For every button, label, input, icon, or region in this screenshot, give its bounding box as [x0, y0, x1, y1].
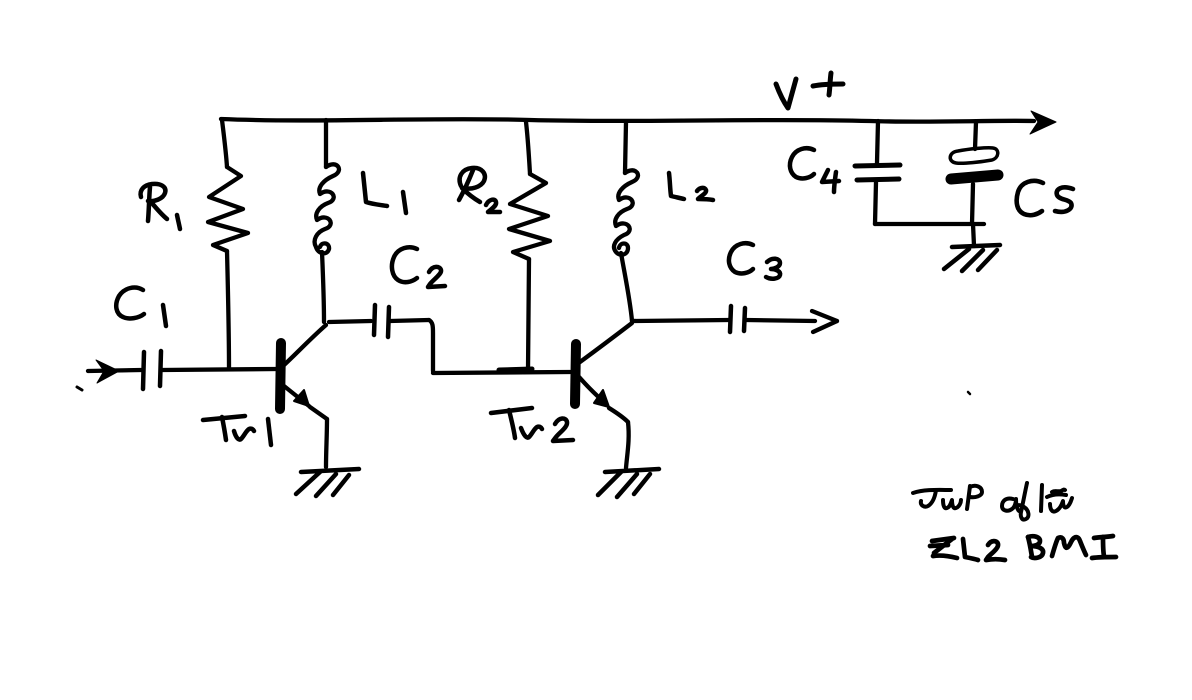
- transistor Tr1 emitter: [284, 386, 327, 419]
- capacitor C5 bottom plate: [951, 175, 998, 179]
- capacitor C3: [730, 306, 745, 332]
- label C4: [790, 148, 839, 192]
- label L2: [669, 173, 713, 200]
- wire Tr1 emitter to ground: [326, 419, 327, 467]
- ground under Tr2: [598, 469, 659, 497]
- label Tr1: [203, 416, 271, 445]
- wire C4 drop: [877, 121, 878, 163]
- wire C2 right: [390, 320, 429, 321]
- transistor Tr1 bar: [280, 343, 281, 409]
- node input arrowhead: [96, 360, 119, 383]
- resistor R2: [509, 174, 550, 259]
- wire L2 bottom: [621, 253, 632, 321]
- label L1: [363, 173, 406, 213]
- wire R1 bottom: [227, 251, 229, 369]
- inductor L2: [614, 170, 638, 254]
- label C3: [729, 243, 780, 279]
- wire C4 to ground junction: [875, 222, 984, 226]
- transistor Tr2 emitter: [579, 377, 628, 422]
- node stray speck: [968, 392, 970, 394]
- node output arrowhead: [812, 311, 837, 332]
- wire overlap mark: [499, 369, 532, 370]
- wire C4 bottom: [875, 182, 876, 224]
- wire R1 top: [222, 120, 227, 167]
- wire to Tr2 base: [433, 372, 570, 373]
- wire V+ rail: [221, 119, 1034, 122]
- wire C3 out: [746, 320, 815, 321]
- wire Tr1 collector to C2: [329, 321, 371, 322]
- ground under Tr1: [296, 469, 359, 496]
- label R1: [141, 184, 180, 229]
- label C2: [392, 247, 445, 287]
- label R2: [459, 168, 500, 212]
- wire C5 drop: [975, 122, 976, 149]
- wire C1 to Tr1 base: [162, 369, 277, 370]
- wire Tr2 emitter to ground: [626, 422, 629, 468]
- label Tr2: [491, 408, 573, 441]
- capacitor C5 top plate: [950, 148, 998, 164]
- wire R2 top: [526, 122, 530, 174]
- node input dot: [77, 387, 82, 390]
- transistor Tr2 collector: [580, 323, 632, 362]
- wire input: [88, 370, 141, 371]
- label V+: [776, 73, 843, 108]
- wire C2 corner down: [429, 320, 433, 371]
- label C5: [1017, 181, 1073, 215]
- signature line 1: [913, 483, 1072, 520]
- wire L1 bottom: [322, 252, 324, 322]
- transistor Tr2 bar: [575, 344, 576, 404]
- inductor L1: [315, 164, 339, 253]
- label C1: [116, 288, 166, 326]
- resistor R1: [208, 167, 248, 251]
- wire R2 bottom: [528, 259, 529, 371]
- node V+ rail arrowhead: [1030, 111, 1056, 134]
- wire Tr2 collector to C3: [632, 320, 729, 321]
- wire ground stem: [973, 224, 974, 246]
- capacitor C2: [374, 305, 389, 337]
- wire L2 top: [625, 122, 626, 173]
- capacitor C1: [143, 351, 161, 389]
- wire L1 top: [324, 120, 328, 167]
- transistor Tr1 collector: [284, 325, 326, 365]
- signature line 2: [930, 536, 1116, 560]
- wire C5 bottom: [972, 184, 973, 224]
- capacitor C4: [855, 165, 900, 180]
- ground near C5: [944, 245, 1000, 271]
